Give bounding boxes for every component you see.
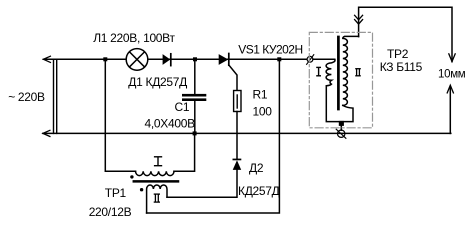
resistor R1 [234, 91, 241, 112]
capacitor C1 [182, 94, 206, 97]
wire bottom bus [43, 132, 451, 134]
node junction C (cathode tap) [277, 57, 281, 61]
wire C1 vertical [194, 59, 196, 94]
wire VS1 gate [229, 65, 237, 91]
svg-text:10мм: 10мм [438, 69, 466, 81]
label TR2 winding II numeral [355, 69, 361, 76]
TR2 terminal bottom (circle-slash) [338, 130, 345, 137]
TR2 terminal input (circle-slash) [307, 56, 313, 62]
mains cord double line [53, 59, 55, 133]
node junction B (C1 tap) [193, 57, 197, 61]
spark gap lower arrow + wire [449, 86, 451, 133]
TR2 bottom junction square [339, 121, 344, 126]
label TR2 winding I numeral [316, 67, 321, 75]
node junction D (bottom C1) [193, 131, 197, 135]
input arrow top [43, 56, 50, 62]
label TR1 winding II numeral [154, 194, 160, 202]
svg-text:R1: R1 [253, 88, 268, 102]
transformer TR1 secondary winding II [147, 185, 167, 213]
lamp L1 [126, 49, 148, 71]
svg-text:4,0Х400В: 4,0Х400В [145, 117, 196, 131]
svg-text:ТР1: ТР1 [105, 186, 127, 200]
transformer TR1 primary winding I [105, 59, 135, 171]
TR2 winding I [313, 59, 353, 121]
wire D2 to TR1 II [167, 170, 237, 197]
svg-text:220/12В: 220/12В [89, 205, 132, 219]
TR2 dashed enclosure box [309, 32, 372, 127]
wire bottom rail to cathode [147, 59, 280, 213]
svg-text:Д2: Д2 [249, 161, 264, 175]
svg-text:С1: С1 [175, 100, 190, 114]
svg-text:VS1 КУ202Н: VS1 КУ202Н [238, 42, 302, 56]
TR2 core [337, 37, 340, 109]
diode D1 [163, 54, 171, 65]
HV connector chevrons [355, 15, 363, 19]
wire HV output [359, 7, 452, 61]
svg-text:~ 220В: ~ 220В [8, 90, 45, 104]
spark gap upper arrow [449, 54, 455, 62]
TR1 polarity dot secondary [140, 188, 143, 191]
wire R1 to D2 [236, 112, 238, 159]
diode D2 [233, 159, 242, 161]
svg-text:Л1 220В, 100Вт: Л1 220В, 100Вт [93, 31, 175, 45]
svg-text:Д1 КД257Д: Д1 КД257Д [128, 75, 187, 89]
TR1 core [134, 180, 178, 183]
svg-text:КД257Д: КД257Д [238, 184, 280, 198]
wire top bus [43, 58, 330, 60]
node junction A (lamp tap) [103, 57, 107, 61]
svg-text:ТР2: ТР2 [387, 47, 409, 61]
TR2 winding II [343, 36, 359, 105]
svg-text:100: 100 [253, 105, 273, 119]
thyristor VS1 [219, 54, 229, 65]
svg-text:КЗ Б115: КЗ Б115 [380, 60, 423, 74]
wire square to terminal [340, 126, 342, 130]
label TR1 winding I numeral [154, 157, 162, 166]
TR1 polarity dot primary [130, 175, 133, 178]
input arrow bottom [43, 130, 50, 136]
